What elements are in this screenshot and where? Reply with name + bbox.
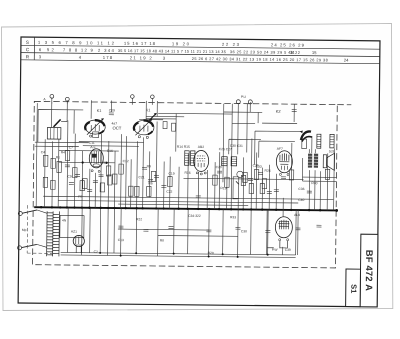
svg-text:S: S bbox=[26, 40, 29, 45]
antenna terminal A bbox=[50, 94, 54, 98]
svg-text:C16: C16 bbox=[107, 149, 113, 153]
svg-text:R19: R19 bbox=[220, 186, 226, 190]
wire long vertical from PU bbox=[223, 104, 248, 210]
tuning arrow V2 bbox=[135, 119, 151, 135]
svg-text:C2: C2 bbox=[94, 250, 98, 254]
tube V6 output bbox=[275, 217, 292, 249]
potentiometer volume bbox=[233, 177, 239, 199]
svg-text:C19: C19 bbox=[169, 172, 175, 176]
svg-text:C40: C40 bbox=[298, 198, 304, 202]
wire detector bias bbox=[229, 139, 261, 154]
capacitor marks group 1 bbox=[65, 165, 167, 192]
mains terminal a bbox=[18, 211, 22, 215]
svg-text:R9: R9 bbox=[147, 164, 151, 168]
svg-text:R1: R1 bbox=[56, 155, 60, 159]
svg-text:C30 C31: C30 C31 bbox=[230, 144, 243, 148]
capacitor marks group 3 bbox=[118, 223, 321, 233]
wire bus verticals left bbox=[36, 103, 127, 208]
svg-text:C28: C28 bbox=[216, 165, 222, 169]
tube V7 rectifier bbox=[73, 235, 84, 253]
table row line 1 bbox=[21, 45, 380, 49]
wire horizontal above bus bbox=[43, 196, 333, 206]
switch K1 arrow bbox=[149, 113, 156, 120]
capacitor marks group 2 bbox=[196, 171, 312, 199]
table label column divider bbox=[33, 37, 35, 60]
svg-text:15: 15 bbox=[312, 50, 317, 55]
svg-text:C4: C4 bbox=[41, 150, 45, 154]
smoothing choke bbox=[330, 134, 334, 148]
node dots bottom rails bbox=[99, 252, 101, 254]
loudspeaker bbox=[323, 153, 334, 170]
svg-text:BF 472 A: BF 472 A bbox=[364, 250, 375, 292]
svg-text:R14 R15: R14 R15 bbox=[177, 145, 190, 149]
svg-text:15 16 17 18: 15 16 17 18 bbox=[124, 41, 156, 46]
wire misc right bbox=[251, 139, 315, 218]
svg-text:R26: R26 bbox=[265, 169, 271, 173]
svg-text:S1: S1 bbox=[349, 284, 358, 293]
svg-text:AZ1: AZ1 bbox=[71, 230, 77, 234]
svg-text:R6: R6 bbox=[148, 181, 152, 185]
aux terminal b bbox=[151, 95, 155, 99]
svg-text:AF7: AF7 bbox=[277, 147, 283, 151]
svg-text:C39: C39 bbox=[285, 248, 291, 252]
svg-text:C7: C7 bbox=[69, 146, 73, 150]
svg-text:R22: R22 bbox=[136, 217, 142, 221]
svg-text:AB2: AB2 bbox=[198, 145, 204, 149]
earth terminal bbox=[65, 97, 69, 101]
mains transformer primary ladder bbox=[47, 211, 53, 256]
svg-text:P.U: P.U bbox=[241, 95, 247, 99]
svg-text:Mp: Mp bbox=[22, 228, 27, 232]
svg-text:C35: C35 bbox=[253, 164, 259, 168]
ground bus bbox=[34, 207, 336, 210]
IF transformer T1 winding b bbox=[190, 151, 195, 166]
wire upper middle links bbox=[146, 113, 255, 152]
svg-text:4a7: 4a7 bbox=[112, 121, 118, 125]
svg-text:R7: R7 bbox=[78, 195, 82, 199]
wire antenna input drops bbox=[52, 102, 68, 128]
wave switch resistor bbox=[302, 139, 307, 149]
svg-text:K2: K2 bbox=[276, 109, 282, 114]
mains switch arm a bbox=[22, 210, 37, 214]
pickup terminal b bbox=[248, 100, 252, 104]
svg-text:C34-322: C34-322 bbox=[188, 214, 201, 218]
wire output stage loop bbox=[267, 210, 298, 255]
switch K2 arrow b bbox=[302, 136, 312, 141]
wire bottom rail 1 bbox=[61, 252, 296, 255]
svg-text:S26: S26 bbox=[329, 149, 335, 153]
svg-text:R8: R8 bbox=[160, 239, 164, 243]
wire bottom rail 2 bbox=[61, 255, 296, 258]
resistor filler cluster b bbox=[243, 172, 267, 188]
mains wires to transformer bbox=[37, 210, 47, 247]
antenna trim arrow bbox=[54, 119, 61, 127]
svg-text:C9: C9 bbox=[67, 175, 71, 179]
resistor filler cluster a bbox=[83, 171, 156, 193]
svg-text:P.W: P.W bbox=[272, 248, 279, 252]
wire K1 section links bbox=[139, 116, 184, 120]
svg-text:R4: R4 bbox=[61, 150, 65, 154]
wire oscillator loop outer bbox=[255, 131, 302, 165]
wire dial lamp feed bbox=[224, 112, 263, 123]
node dots AF grid line bbox=[82, 161, 84, 163]
svg-text:C26 C27: C26 C27 bbox=[219, 147, 232, 151]
svg-text:24: 24 bbox=[344, 58, 349, 63]
output transformer winding b bbox=[314, 154, 318, 168]
mains transformer secondary ladder bbox=[53, 211, 60, 256]
wire left coupling bbox=[35, 141, 144, 151]
svg-text:24 25 26 29: 24 25 26 29 bbox=[271, 42, 305, 47]
wire top stubs bbox=[52, 97, 251, 122]
svg-text:OCT: OCT bbox=[112, 125, 121, 130]
output transformer winding a bbox=[308, 154, 312, 168]
tuning arrow V1 bbox=[87, 119, 103, 135]
wire antenna coupling bar bbox=[38, 109, 83, 142]
switch section box a bbox=[163, 122, 167, 129]
IF transformer T2 winding a bbox=[222, 157, 228, 166]
tube V3 bbox=[89, 149, 103, 173]
rectifier section box bbox=[60, 215, 84, 237]
band coil right bbox=[317, 134, 321, 148]
tube V5 output pentode driver bbox=[276, 151, 292, 176]
mains terminal b bbox=[17, 246, 21, 250]
capacitor C29 bbox=[109, 113, 114, 115]
IF transformer T1 winding a bbox=[185, 151, 190, 166]
svg-text:K1: K1 bbox=[97, 109, 102, 113]
tube V2 octode bbox=[134, 120, 154, 138]
pickup terminal a bbox=[236, 100, 240, 104]
table row line 3 bbox=[21, 60, 380, 64]
tube V4 detector bbox=[194, 150, 209, 175]
wire bus verticals right bbox=[251, 143, 334, 211]
svg-text:7 8 8 12 9: 7 8 8 12 9 bbox=[63, 47, 94, 52]
svg-text:C13: C13 bbox=[118, 238, 124, 242]
svg-text:K1: K1 bbox=[146, 108, 151, 112]
IF transformer T2 winding b bbox=[231, 157, 237, 166]
title box S1 bbox=[346, 269, 361, 307]
svg-text:1 7 8: 1 7 8 bbox=[103, 55, 113, 60]
oscillator coil box L1 bbox=[47, 127, 61, 139]
switch K2 arrow a bbox=[301, 131, 311, 140]
svg-text:34: 34 bbox=[290, 50, 295, 55]
frame border bbox=[18, 37, 380, 307]
mains section dashed enclosure bbox=[27, 205, 56, 253]
svg-text:C21: C21 bbox=[138, 175, 144, 179]
table row line 2 bbox=[21, 53, 380, 57]
resistor R cluster mid-left bbox=[106, 164, 172, 197]
diode detector circle bbox=[237, 171, 243, 177]
svg-text:R2: R2 bbox=[103, 161, 107, 165]
switch section box b bbox=[171, 123, 175, 131]
wire bus verticals middle bbox=[131, 121, 244, 209]
svg-text:C11: C11 bbox=[89, 141, 95, 145]
title box BF 472 A bbox=[360, 234, 378, 307]
capacitor on lamp feed bbox=[292, 109, 297, 111]
svg-text:C36: C36 bbox=[298, 187, 304, 191]
chassis dashed boundary bbox=[33, 101, 338, 268]
aux terminal a bbox=[131, 95, 135, 99]
wire AF grid line bbox=[59, 161, 115, 164]
wire bottom extra verticals bbox=[90, 208, 115, 256]
mains switch arm b bbox=[22, 244, 37, 247]
svg-text:21 19 2: 21 19 2 bbox=[130, 55, 153, 60]
wire bottom verticals bbox=[68, 208, 297, 258]
svg-text:C29: C29 bbox=[109, 108, 115, 112]
tube V1 octode bbox=[85, 120, 105, 138]
svg-text:C38: C38 bbox=[241, 229, 247, 233]
wire mid horizontals bbox=[118, 175, 337, 237]
svg-text:C12: C12 bbox=[123, 159, 129, 163]
bus junction dots bbox=[40, 206, 42, 208]
dashed stub top right bbox=[337, 104, 351, 106]
svg-text:R33: R33 bbox=[230, 215, 236, 219]
svg-text:R30: R30 bbox=[311, 181, 317, 185]
svg-text:C22: C22 bbox=[166, 190, 172, 194]
svg-text:R16: R16 bbox=[185, 171, 191, 175]
resistor R cluster left bbox=[43, 150, 85, 190]
svg-text:4N: 4N bbox=[62, 218, 67, 222]
wire K2 feed bbox=[35, 102, 313, 210]
resistor R cluster mid-right bbox=[213, 168, 330, 194]
capacitor filler marks bbox=[69, 167, 263, 187]
svg-text:R28: R28 bbox=[208, 251, 214, 255]
svg-text:AL4: AL4 bbox=[294, 213, 300, 217]
svg-text:A F: A F bbox=[90, 145, 96, 149]
